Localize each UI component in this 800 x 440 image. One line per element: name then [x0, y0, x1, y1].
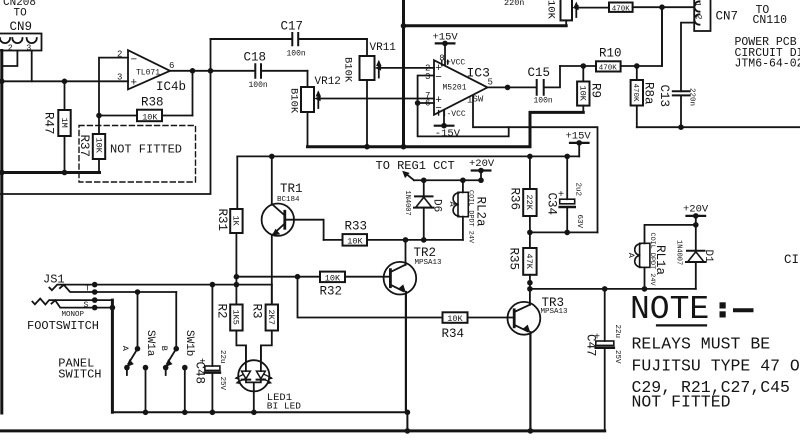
power +20V (right): [683, 204, 709, 225]
connector CN7: [693, 0, 739, 31]
op-amp IC4b TL071: [117, 50, 186, 95]
wire CN9 pin2: [2, 51, 18, 67]
node dot: [62, 170, 68, 176]
svg-text:2: 2: [694, 15, 704, 20]
dashed box NOT FITTED: [79, 126, 196, 183]
svg-text:SW1b: SW1b: [183, 330, 195, 356]
svg-text:A: A: [626, 253, 636, 259]
wire node y66: [560, 65, 596, 67]
svg-text:10K: 10K: [93, 138, 103, 154]
wire RL1a top link: [645, 225, 696, 243]
svg-text:1K: 1K: [231, 216, 241, 227]
wire IC3 pin3/pin6 bracket: [418, 76, 509, 137]
svg-text:NOTE: NOTE: [630, 291, 709, 328]
svg-text:SW: SW: [473, 94, 484, 104]
node dot C13 bottom: [678, 124, 684, 130]
svg-text:10K: 10K: [447, 314, 463, 324]
wire thick bottom ground rail: [0, 429, 605, 432]
svg-text:3: 3: [26, 43, 31, 53]
svg-text:MPSA13: MPSA13: [541, 308, 569, 316]
wire IC4b pin2: [99, 58, 128, 116]
svg-text:VR12: VR12: [315, 76, 341, 88]
wire relay rail y288: [530, 288, 696, 290]
node dot C48 top: [210, 282, 216, 288]
svg-text:R38: R38: [141, 96, 164, 110]
svg-text:FUJITSU TYPE 47 O: FUJITSU TYPE 47 O: [632, 357, 800, 376]
node dot sleeve: [92, 297, 98, 303]
node dot bus: [401, 144, 407, 150]
resistor R9 10K: [577, 66, 602, 112]
svg-text:R8a: R8a: [642, 82, 656, 105]
LED LED1 BI LED: [234, 345, 301, 412]
wire bias node y232: [530, 231, 598, 233]
node dot: [405, 428, 411, 434]
svg-text:470K: 470K: [631, 84, 639, 103]
relay coil RL2a: [447, 180, 488, 244]
node dot C34 top: [564, 154, 570, 160]
node dot LED bottom: [251, 410, 257, 416]
wire thick analog ground bus: [308, 112, 584, 146]
node dot feedback: [190, 68, 196, 74]
svg-text:R32: R32: [320, 285, 343, 299]
wire feedback drop: [192, 71, 194, 116]
svg-text:C13: C13: [657, 85, 671, 108]
note body text: [632, 335, 800, 412]
label TO CN110: [753, 4, 788, 27]
svg-text:10K: 10K: [347, 237, 363, 247]
svg-text:C18: C18: [244, 51, 267, 65]
svg-text:RELAYS MUST BE: RELAYS MUST BE: [632, 335, 771, 354]
note heading NOTE :-: [630, 291, 752, 328]
svg-text:IC4b: IC4b: [156, 80, 186, 94]
svg-text:3: 3: [117, 73, 122, 83]
svg-text:47K: 47K: [524, 254, 534, 270]
wire IC3 output pin5: [488, 86, 537, 88]
svg-text:2: 2: [8, 43, 13, 53]
svg-text:22u: 22u: [218, 350, 226, 364]
transistor TR1 BC184: [262, 156, 324, 304]
capacitor C15 100n: [528, 66, 561, 106]
wire TR2 base line: [236, 276, 390, 278]
resistor R10 470K: [596, 7, 662, 73]
svg-text:470K: 470K: [599, 65, 618, 73]
svg-text:100n: 100n: [249, 81, 268, 90]
node dot TR1 collector: [269, 154, 275, 160]
label POWER PCB CIRCUIT DIAGRAM: [735, 36, 800, 71]
capacitor C13 220n: [657, 23, 696, 128]
resistor R36 22K: [508, 156, 537, 248]
svg-text:MONOP: MONOP: [62, 311, 85, 319]
potentiometer 10K (top, cut): [545, 0, 610, 26]
svg-text:D6: D6: [431, 199, 443, 212]
node dot C17/C18: [208, 68, 214, 74]
wire link to bottom rail: [406, 412, 408, 431]
svg-text:C34: C34: [545, 193, 559, 216]
svg-text:1N4007: 1N4007: [675, 240, 683, 265]
wire IC4b output pin6: [169, 70, 256, 72]
resistor R35 47K: [507, 248, 537, 289]
svg-text:22u: 22u: [613, 325, 621, 339]
resistor R2 1K5: [215, 304, 246, 360]
svg-text:BI LED: BI LED: [267, 401, 302, 412]
node dot R38/R37: [96, 113, 102, 119]
svg-text:R33: R33: [345, 220, 368, 234]
node dot R2 top: [234, 282, 240, 288]
svg-text:220n: 220n: [688, 88, 696, 106]
svg-text:D1: D1: [702, 250, 714, 264]
svg-text:B10K: B10K: [288, 88, 300, 114]
svg-text:R37: R37: [77, 135, 91, 158]
svg-text:C48: C48: [193, 362, 207, 385]
svg-text:100n: 100n: [534, 97, 553, 106]
diode D6 1N4007: [403, 180, 443, 240]
svg-text:-VCC: -VCC: [447, 110, 466, 119]
svg-text:FOOTSWITCH: FOOTSWITCH: [27, 319, 99, 333]
node dot ground drop: [110, 305, 116, 311]
potentiometer VR12 B10K: [288, 71, 435, 146]
resistor R33 10K: [324, 220, 463, 247]
svg-text:COIL DPDT 24V: COIL DPDT 24V: [466, 190, 474, 244]
svg-text:RL1a: RL1a: [653, 245, 667, 276]
svg-text:5: 5: [488, 78, 493, 88]
wire CN7 pin1 drop: [661, 7, 663, 66]
capacitor C18 100n: [244, 51, 308, 91]
svg-text:1N4007: 1N4007: [403, 191, 411, 216]
node dot jack shunt: [92, 289, 98, 295]
svg-text:2K7: 2K7: [266, 310, 276, 325]
jack JS1 tip contact: [43, 273, 95, 294]
svg-text:TO: TO: [14, 8, 28, 20]
wire IC4b out to edge y194: [0, 71, 211, 194]
op-amp IC3 M5201: [425, 54, 493, 119]
svg-text:R9: R9: [589, 83, 603, 98]
wire +15V rail y156: [237, 155, 579, 157]
node dot SW1a top wire: [135, 289, 141, 295]
svg-text:C15: C15: [528, 66, 551, 80]
node dot TR2 collector: [403, 237, 409, 243]
svg-text:R34: R34: [442, 327, 465, 341]
svg-text:10K: 10K: [577, 86, 587, 102]
resistor R3 2K7: [250, 285, 279, 360]
node dot +20V corner: [478, 177, 484, 183]
svg-text:63V: 63V: [575, 215, 583, 229]
node dot stacked: [527, 280, 533, 286]
node dot R9 top: [581, 63, 587, 69]
svg-text:A: A: [120, 346, 130, 352]
node dot: [527, 230, 533, 236]
node dot: [659, 4, 665, 10]
svg-text:R2: R2: [215, 304, 229, 319]
svg-text:NOT FITTED: NOT FITTED: [110, 143, 182, 157]
svg-text:SW1a: SW1a: [144, 330, 156, 357]
transistor TR2 MPSA13: [384, 240, 442, 412]
wire REG1 arrow: [402, 171, 414, 181]
wire thick ground y172: [0, 171, 100, 174]
node dot jack T: [92, 282, 98, 288]
node dot TR3 collector: [527, 286, 533, 292]
svg-text:CN9: CN9: [10, 20, 33, 34]
svg-text:2u2: 2u2: [574, 183, 582, 197]
capacitor C47 22u 25V: [584, 289, 622, 431]
node dot RL1a bottom: [642, 286, 648, 292]
svg-text:C17: C17: [281, 20, 304, 34]
svg-text:R35: R35: [507, 248, 521, 271]
wire R34 branch drop: [298, 277, 443, 318]
node dot TR3 emitter: [528, 428, 534, 434]
svg-text:8: 8: [439, 54, 444, 64]
svg-text:JTM6-64-02: JTM6-64-02: [735, 58, 800, 71]
svg-text:CN110: CN110: [753, 14, 788, 27]
connector CN9: [0, 0, 42, 53]
wire IC3 pin1 SW net: [473, 96, 598, 233]
resistor R34 10K: [442, 312, 515, 341]
svg-text:B10K: B10K: [342, 57, 354, 83]
capacitor C34 2u2 63V: [545, 156, 584, 232]
svg-text:25V: 25V: [218, 377, 226, 391]
node dot D6 top: [421, 177, 427, 183]
switch SW1a: [120, 292, 156, 412]
svg-text:R47: R47: [42, 112, 56, 135]
resistor R47 1M: [42, 81, 71, 172]
wire thick top bus vertical: [402, 0, 405, 147]
node dot TR2 emitter: [405, 410, 411, 416]
wire CN9 pin1 / left ground drop: [0, 51, 3, 414]
wire C17 left drop: [210, 39, 212, 71]
node dot R47 top: [62, 79, 68, 85]
node dot: [0, 79, 5, 85]
svg-text:RL2a: RL2a: [474, 197, 488, 228]
node dot RL2a top: [460, 177, 466, 183]
resistor 470K (top): [609, 3, 694, 14]
node dot output: [505, 85, 511, 91]
svg-text:470K: 470K: [612, 5, 631, 13]
svg-text:-15V: -15V: [435, 128, 461, 140]
resistor R32 10K: [320, 272, 346, 299]
node dot R36 top: [527, 154, 533, 160]
switch SW1b: [159, 292, 195, 412]
wire CN9 pin3: [31, 51, 33, 82]
svg-text:10K: 10K: [142, 112, 158, 122]
node dot C48 bottom: [210, 410, 216, 416]
svg-text:A: A: [447, 202, 457, 208]
svg-text:−: −: [131, 55, 138, 67]
node dot pin6: [415, 100, 421, 106]
svg-text:10K: 10K: [325, 273, 341, 283]
resistor R8a 470K: [631, 66, 656, 127]
svg-text:22K: 22K: [524, 195, 534, 211]
capacitor C17 100n: [211, 20, 368, 59]
node dot R34 branch: [295, 274, 301, 280]
power +15V (IC3): [433, 32, 459, 66]
svg-text:SWITCH: SWITCH: [58, 368, 101, 382]
wire switch ground rail y412: [112, 411, 407, 413]
node dot: [401, 23, 407, 29]
jack footswitch sleeve: [32, 299, 112, 320]
node dot D6 bottom: [421, 237, 427, 243]
capacitor C48 22u 25V: [193, 285, 226, 413]
label PANEL SWITCH: [58, 356, 101, 381]
node dot sleeve shunt: [92, 305, 98, 311]
node dot R31 bottom: [234, 274, 240, 280]
svg-text:6: 6: [169, 61, 174, 71]
node dot +20V/D1: [693, 222, 699, 228]
svg-text:CIR: CIR: [784, 253, 800, 267]
svg-text:VR11: VR11: [370, 42, 397, 54]
svg-text:+: +: [131, 78, 138, 90]
svg-text:R36: R36: [508, 188, 522, 211]
node dot R8a top: [634, 63, 640, 69]
svg-text:IC3: IC3: [467, 66, 490, 81]
svg-text:MPSA13: MPSA13: [415, 259, 443, 267]
svg-text:3: 3: [425, 72, 430, 82]
svg-text:S: S: [84, 301, 89, 310]
svg-text:−: −: [435, 72, 442, 84]
svg-text:R3: R3: [250, 304, 264, 319]
svg-text:TO REG1 CCT: TO REG1 CCT: [376, 159, 455, 173]
power +20V (left): [469, 158, 495, 180]
svg-text:BC184: BC184: [277, 196, 300, 204]
potentiometer VR11 B10K: [342, 39, 435, 147]
relay coil RL1a: [626, 233, 667, 289]
power +15V (rail): [566, 131, 592, 157]
svg-text:1K5: 1K5: [231, 310, 241, 325]
wire T line: [95, 284, 272, 286]
diode D1 1N4007: [675, 225, 714, 289]
svg-text:10K: 10K: [545, 0, 557, 20]
svg-text:220n: 220n: [504, 0, 524, 8]
svg-text:B: B: [159, 346, 169, 351]
power -15V: [435, 112, 461, 140]
node dot: [564, 230, 570, 236]
node dot: [0, 170, 5, 176]
svg-text:−: −: [435, 103, 442, 115]
svg-text:1: 1: [693, 2, 703, 7]
svg-text:R31: R31: [215, 209, 229, 232]
resistor R37 10K not fitted: [77, 116, 105, 173]
resistor R38 10K: [99, 96, 193, 123]
wire R8a/C13 bottom to edge: [637, 126, 800, 128]
svg-text:25V: 25V: [613, 350, 621, 364]
svg-text:TL071: TL071: [136, 69, 160, 78]
svg-text:+VCC: +VCC: [446, 58, 465, 67]
transistor TR3 MPSA13: [508, 289, 569, 431]
wire node line y81 to IC4b pin3: [2, 80, 128, 82]
node dot: [143, 410, 149, 416]
jack JS1 shunt contact: [60, 285, 176, 292]
svg-text:C47: C47: [584, 334, 598, 357]
svg-text:TR1: TR1: [280, 182, 303, 196]
wire thick top bus horizontal: [404, 24, 567, 27]
node dot VR11 bottom: [364, 144, 370, 150]
wire thick ground drop: [111, 300, 114, 412]
wire +20V rail y180: [414, 179, 481, 181]
resistor R31 1K: [215, 156, 243, 304]
svg-text:100n: 100n: [287, 50, 306, 59]
node dot C47 top: [602, 286, 608, 292]
node dot: [182, 410, 188, 416]
svg-text:NOT FITTED: NOT FITTED: [632, 393, 731, 412]
svg-text:R10: R10: [599, 47, 622, 61]
svg-text:CN7: CN7: [716, 10, 739, 24]
svg-text:M5201: M5201: [443, 84, 467, 93]
svg-text:1M: 1M: [59, 118, 69, 128]
